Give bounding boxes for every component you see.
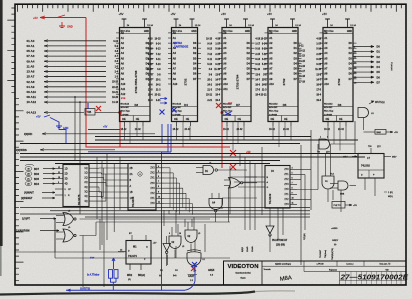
svg-text:Tervezde:: Tervezde: <box>264 268 272 271</box>
svg-text:1Y3: 1Y3 <box>284 204 289 206</box>
svg-text:11: 11 <box>158 202 160 204</box>
svg-text:24-2: 24-2 <box>207 83 212 86</box>
blue annotation +5V/GND switch mid-left <box>44 115 62 128</box>
AND gate TN near bus <box>319 139 330 149</box>
svg-text:2732: 2732 <box>282 78 286 85</box>
svg-text:8-13: 8-13 <box>207 49 212 51</box>
inverter near U9 <box>266 226 274 234</box>
red annotation +5V/GND switch top-left <box>40 15 86 28</box>
svg-text:20-02: 20-02 <box>135 129 142 131</box>
U7 output wires with drops <box>164 167 170 169</box>
svg-text:11-13: 11-13 <box>299 56 305 58</box>
title block number row <box>304 271 406 273</box>
svg-text:GND: GND <box>67 25 73 29</box>
svg-text:D5: D5 <box>377 70 381 74</box>
AND gate WAIT small <box>358 108 369 118</box>
svg-text:(2)Y: (2)Y <box>377 146 381 148</box>
NOR gate G2 <box>63 229 74 242</box>
svg-text:4Q: 4Q <box>84 201 87 203</box>
svg-text:4Q: 4Q <box>84 196 87 198</box>
svg-text:18-20: 18-20 <box>112 97 119 99</box>
NOR gate G1 <box>63 213 74 226</box>
svg-text:1(V)PT: 1(V)PT <box>22 218 30 221</box>
svg-text:5-16: 5-16 <box>316 49 321 51</box>
digit cell separators <box>346 272 402 285</box>
svg-text:11/4/5: 11/4/5 <box>247 246 249 252</box>
svg-text:BD5: BD5 <box>34 178 40 181</box>
PUZ TV box <box>332 202 345 209</box>
svg-text:3: 3 <box>327 137 328 139</box>
svg-text:G: G <box>267 187 269 189</box>
resistor BAD <box>375 130 386 135</box>
svg-text:25-1: 25-1 <box>156 79 161 81</box>
svg-text:20-02: 20-02 <box>338 129 345 131</box>
svg-text:19-21: 19-21 <box>112 92 119 94</box>
left ruler ticks <box>7 8 23 280</box>
red X marks near 74LS139 inputs <box>230 150 236 156</box>
svg-text:+5V: +5V <box>153 243 157 245</box>
svg-text:GND: GND <box>144 31 149 33</box>
svg-text:4-18: 4-18 <box>148 38 153 41</box>
svg-text:5: 5 <box>158 171 159 173</box>
svg-text:OUT(TS): OUT(TS) <box>80 287 90 290</box>
scan bottom edge shadow <box>0 292 255 295</box>
svg-text:11: 11 <box>292 203 294 205</box>
EPROM U3 2732 D7 <box>222 28 251 122</box>
svg-text:20-02: 20-02 <box>283 129 290 131</box>
svg-text:18-02: 18-02 <box>173 129 180 131</box>
svg-text:D1: D1 <box>377 50 381 54</box>
vertical wire right side x301 <box>300 145 302 265</box>
svg-text:9: 9 <box>169 233 170 235</box>
svg-text:1Y3: 1Y3 <box>150 188 155 190</box>
svg-text:Valt: Valt <box>386 268 389 271</box>
svg-text:19-3: 19-3 <box>215 100 220 102</box>
svg-text:9: 9 <box>292 193 293 195</box>
svg-text:A12: A12 <box>121 93 126 96</box>
svg-text:GND: GND <box>191 31 196 33</box>
svg-text:14-16: 14-16 <box>112 101 119 104</box>
svg-text:BD7: BD7 <box>34 168 40 171</box>
svg-text:23-25: 23-25 <box>112 82 119 84</box>
svg-text:2Y1: 2Y1 <box>150 178 155 180</box>
svg-text:18-02: 18-02 <box>223 129 230 131</box>
svg-text:CE: CE <box>186 118 190 121</box>
bus wires lower group <box>20 153 358 155</box>
red wire to IC3 area <box>120 113 222 169</box>
svg-text:TN(slow): TN(slow) <box>325 250 327 258</box>
svg-text:CE: CE <box>284 118 288 121</box>
svg-text:2732-7851-0708: 2732-7851-0708 <box>134 70 138 93</box>
svg-text:I(0)WRS: I(0)WRS <box>16 148 27 152</box>
svg-text:9-11: 9-11 <box>299 46 304 48</box>
svg-text:+5V: +5V <box>267 12 272 16</box>
svg-text:13-15: 13-15 <box>299 61 306 63</box>
long vertical wire from A12 <box>79 101 81 103</box>
svg-text:23-21: 23-21 <box>261 95 268 97</box>
svg-text:7: 7 <box>158 181 159 183</box>
svg-text:BD6: BD6 <box>34 173 40 176</box>
svg-text:2-15: 2-15 <box>255 54 260 56</box>
vertical wire x355 to gate <box>354 121 356 154</box>
NAND gate D1 top center <box>203 166 214 175</box>
red wire from switch down left side <box>86 18 120 148</box>
svg-text:20-02: 20-02 <box>237 129 244 131</box>
svg-text:+A500: +A500 <box>331 227 338 230</box>
data bus output arrows D0-D7 <box>353 46 374 48</box>
svg-text:6: 6 <box>158 176 159 178</box>
svg-text:M1: M1 <box>133 246 137 249</box>
svg-text:19-3: 19-3 <box>148 100 153 102</box>
EPROM U4 2732 D5 <box>268 28 298 122</box>
svg-text:3Q: 3Q <box>84 192 87 194</box>
svg-text:74LS139: 74LS139 <box>268 193 272 204</box>
svg-text:8-13: 8-13 <box>156 49 161 51</box>
svg-text:13-8: 13-8 <box>255 74 260 76</box>
svg-text:11-10: 11-10 <box>254 69 260 71</box>
top ruler ticks <box>18 4 402 12</box>
svg-text:10: 10 <box>158 196 160 198</box>
svg-text:2Y3: 2Y3 <box>150 168 155 170</box>
scan left edge dark bar <box>0 0 3 246</box>
svg-text:1-17: 1-17 <box>316 44 321 46</box>
blue X marks at U2 bottom pins <box>160 110 165 115</box>
svg-text:15-17: 15-17 <box>299 71 306 73</box>
svg-text:SYS: SYS <box>121 98 126 100</box>
U6 to U7 ladder wires <box>89 167 99 169</box>
XOR gate with blue X <box>187 252 201 266</box>
svg-text:13 A6: 13 A6 <box>27 70 35 74</box>
svg-text:TN/5(0)4(TS): TN/5(0)4(TS) <box>332 248 334 260</box>
svg-text:18-02: 18-02 <box>121 129 128 131</box>
svg-text:NC=-Vpp: NC=-Vpp <box>269 111 279 113</box>
svg-text:digitalis szamitogep: digitalis szamitogep <box>275 263 291 266</box>
inverter buffer center <box>163 244 171 252</box>
svg-text:+5V: +5V <box>221 12 226 16</box>
svg-text:(A)WAIT: (A)WAIT <box>24 192 34 195</box>
svg-text:18-02: 18-02 <box>324 129 331 131</box>
vertical drops from EPROM bottoms <box>124 126 126 140</box>
svg-text:17-5: 17-5 <box>316 90 321 92</box>
svg-text:C1,A1,A1: C1,A1,A1 <box>390 62 393 71</box>
svg-text:14-7: 14-7 <box>316 78 321 81</box>
svg-text:M5V: M5V <box>343 157 348 159</box>
svg-text:08 A11: 08 A11 <box>27 95 37 99</box>
U9 left stubs <box>257 176 265 178</box>
svg-text:TYP: TYP <box>90 258 95 260</box>
svg-text:8-13: 8-13 <box>215 59 220 61</box>
svg-text:7-12: 7-12 <box>156 54 161 56</box>
svg-text:14-16: 14-16 <box>299 65 306 68</box>
svg-text:9-12: 9-12 <box>255 64 260 66</box>
svg-text:1Y0: 1Y0 <box>284 189 289 191</box>
gate H11 <box>338 181 348 190</box>
svg-text:5-10: 5-10 <box>156 64 161 66</box>
U6 left pin stubs <box>55 168 63 170</box>
U10 bottom wires <box>364 178 366 190</box>
svg-text:17-19: 17-19 <box>299 81 306 83</box>
svg-text:NC=-Vpp: NC=-Vpp <box>223 111 233 113</box>
svg-text:2Y0: 2Y0 <box>150 183 155 185</box>
svg-text:12-14: 12-14 <box>195 25 201 27</box>
svg-text:10-15: 10-15 <box>206 39 213 41</box>
svg-text:8: 8 <box>158 186 159 188</box>
svg-text:7-12: 7-12 <box>207 54 212 56</box>
svg-text:CE: CE <box>339 118 343 121</box>
svg-text:A10: A10 <box>173 83 178 86</box>
svg-text:21-3: 21-3 <box>262 90 267 92</box>
svg-text:I(0)RD: I(0)RD <box>24 132 32 136</box>
svg-text:NC=-Vpp: NC=-Vpp <box>121 111 131 113</box>
svg-text:+5V: +5V <box>171 12 176 16</box>
NOR gate center right <box>229 178 241 189</box>
flip-flop U8 74LS74 <box>126 241 151 265</box>
svg-text:9: 9 <box>158 191 159 193</box>
svg-text:5-10: 5-10 <box>262 64 267 66</box>
svg-text:VIDEOTON: VIDEOTON <box>228 264 259 270</box>
svg-text:TN FAST: TN FAST <box>319 249 322 258</box>
svg-text:4-18: 4-18 <box>215 38 220 41</box>
svg-text:BAD: BAD <box>377 131 382 134</box>
svg-text:OE: OE <box>225 118 229 121</box>
svg-text:2B: 2B <box>130 167 133 170</box>
U7 right pin stubs <box>156 167 164 169</box>
svg-text:14-7: 14-7 <box>255 78 260 81</box>
U8 left stub <box>118 251 126 253</box>
svg-text:GND: GND <box>347 31 352 33</box>
vertical wire right side x311 <box>310 130 312 210</box>
svg-text:05 A2: 05 A2 <box>27 49 35 53</box>
svg-text:4D: 4D <box>65 183 68 186</box>
svg-text:3Q: 3Q <box>84 187 87 189</box>
svg-text:24-2: 24-2 <box>262 83 267 86</box>
svg-text:1Q: 1Q <box>84 168 87 170</box>
svg-text:2Y3: 2Y3 <box>284 184 289 186</box>
svg-text:GND: GND <box>245 31 250 33</box>
G1 G2 output wires <box>80 218 211 220</box>
U8 top stubs <box>131 235 133 241</box>
svg-text:D4: D4 <box>377 65 381 69</box>
extra wire drops below EPROMs <box>129 122 131 144</box>
svg-text:18-02: 18-02 <box>269 129 276 131</box>
blue X mark XOR output <box>192 262 197 267</box>
blue tick near TRB <box>87 103 89 109</box>
svg-text:13-8: 13-8 <box>148 74 153 76</box>
svg-text:04 A13: 04 A13 <box>27 111 37 115</box>
wire mesh bottom center <box>96 157 98 219</box>
svg-text:23-21: 23-21 <box>206 95 213 97</box>
svg-text:WU71(u): WU71(u) <box>375 101 385 104</box>
svg-text:A11: A11 <box>121 88 126 91</box>
svg-text:TN: TN <box>317 152 320 154</box>
svg-text:5: 5 <box>292 173 293 175</box>
H11 wires <box>330 183 338 185</box>
svg-text:2-21: 2-21 <box>207 100 212 102</box>
svg-text:21-3: 21-3 <box>156 90 161 92</box>
svg-text:04 A9: 04 A9 <box>27 85 35 89</box>
red bus wire <box>86 146 230 148</box>
svg-text:5-16: 5-16 <box>148 49 153 51</box>
svg-text:10: 10 <box>292 198 294 200</box>
blue arrow at U3 bottom <box>225 112 231 115</box>
svg-text:8: 8 <box>292 188 293 190</box>
svg-text:(s): (s) <box>334 244 337 246</box>
svg-text:11-10: 11-10 <box>147 69 153 71</box>
svg-text:+5V: +5V <box>33 16 38 20</box>
svg-text:Szamitastechnikai: Szamitastechnikai <box>235 272 251 275</box>
svg-text:CE: CE <box>238 118 242 121</box>
U9 left input wires <box>230 176 257 178</box>
blue OUT wire bottom <box>66 289 185 291</box>
svg-text:u-PK-60: u-PK-60 <box>317 263 324 265</box>
U6 input labels BD7-BD4 with circled pins <box>25 164 34 165</box>
svg-text:5-16: 5-16 <box>215 49 220 51</box>
svg-text:11/4/A: 11/4/A <box>251 246 254 252</box>
svg-text:2D: 2D <box>65 173 68 176</box>
svg-text:1Q: 1Q <box>84 173 87 175</box>
svg-text:12-14: 12-14 <box>147 25 153 27</box>
svg-text:GND: GND <box>292 31 297 33</box>
svg-text:1: 1 <box>320 137 321 139</box>
svg-text:9-14: 9-14 <box>207 43 212 46</box>
svg-text:+5V: +5V <box>119 12 124 16</box>
EPROM U1 2732 D3 <box>120 28 151 122</box>
svg-text:D0: D0 <box>377 45 381 49</box>
long vertical wire from A11 <box>74 96 76 98</box>
svg-text:11: 11 <box>58 172 60 174</box>
svg-text:OE: OE <box>326 118 330 121</box>
svg-text:(2)RESET: (2)RESET <box>21 197 33 200</box>
svg-text:12-14: 12-14 <box>248 25 254 27</box>
svg-text:17-5: 17-5 <box>215 90 220 92</box>
svg-text:CE: CE <box>136 118 140 121</box>
svg-text:Dea.sam. 72: Dea.sam. 72 <box>380 263 391 265</box>
svg-text:2Q: 2Q <box>84 182 87 184</box>
svg-text:74LS156: 74LS156 <box>131 196 135 207</box>
svg-text:8-13: 8-13 <box>262 49 267 51</box>
svg-text:1 (D): 1 (D) <box>388 192 393 194</box>
svg-text:5-10: 5-10 <box>207 64 212 66</box>
long vertical wire x262 <box>261 147 263 215</box>
svg-text:10: 10 <box>179 233 181 235</box>
svg-text:1Y2: 1Y2 <box>150 193 155 195</box>
svg-text:+5V: +5V <box>353 205 357 207</box>
svg-text:A10: A10 <box>223 83 228 86</box>
svg-text:+5V: +5V <box>322 12 327 16</box>
title block outer <box>224 261 407 285</box>
svg-text:+5V: +5V <box>103 126 108 129</box>
svg-text:9-14: 9-14 <box>156 43 161 46</box>
svg-text:4: 4 <box>292 168 293 170</box>
svg-text:EXT: EXT <box>228 103 233 105</box>
svg-text:+5V: +5V <box>36 116 41 119</box>
svg-text:PUZ TV: PUZ TV <box>334 205 342 207</box>
decoder U7 74LS156 <box>128 164 156 211</box>
svg-text:9-12: 9-12 <box>316 64 321 66</box>
svg-text:1B: 1B <box>130 191 133 194</box>
red junction blob <box>118 111 121 114</box>
red X below XOR <box>191 266 196 271</box>
wires upper bottom-left <box>20 207 310 209</box>
bus wires below EPROMs <box>95 136 311 138</box>
svg-text:8-13: 8-13 <box>255 59 260 61</box>
EPROM U2 extra cartridge D4 <box>172 28 198 122</box>
svg-text:3D: 3D <box>65 178 68 181</box>
svg-text:CART: CART <box>188 275 195 278</box>
gate F6 below <box>322 176 334 189</box>
EPROM U5 2732 D6 <box>323 28 353 122</box>
svg-text:2732: 2732 <box>184 78 188 85</box>
svg-text:2Y0: 2Y0 <box>284 169 289 171</box>
svg-text:D6: D6 <box>377 75 381 79</box>
svg-text:1-17: 1-17 <box>255 44 260 46</box>
svg-text:6-11: 6-11 <box>262 59 267 61</box>
svg-text:NC=A12: NC=A12 <box>324 103 333 106</box>
svg-text:Rajzszam: Rajzszam <box>329 269 337 271</box>
svg-text:5-16: 5-16 <box>255 49 260 51</box>
U9 right stubs <box>290 169 297 171</box>
svg-text:C(1)(A): C(1)(A) <box>303 233 306 240</box>
svg-text:27—5109170002E: 27—5109170002E <box>339 273 409 282</box>
svg-text:1Y1: 1Y1 <box>150 198 155 200</box>
svg-text:25-1: 25-1 <box>207 79 212 81</box>
svg-text:1D: 1D <box>65 168 68 171</box>
svg-text:NC=-Vpp: NC=-Vpp <box>173 111 183 113</box>
svg-text:2732-2764: 2732-2764 <box>236 74 240 89</box>
svg-text:D2: D2 <box>377 55 381 59</box>
svg-text:11 A5: 11 A5 <box>27 64 35 68</box>
svg-text:1Y0: 1Y0 <box>150 203 155 205</box>
blue resistor pair <box>109 270 113 279</box>
blue wires below U2 <box>66 124 171 290</box>
svg-text:(0): (0) <box>128 279 131 281</box>
svg-text:CARTRIDGE: CARTRIDGE <box>174 46 189 49</box>
svg-text:7-12: 7-12 <box>262 54 267 56</box>
svg-text:21-3: 21-3 <box>207 90 212 92</box>
svg-text:10 A12: 10 A12 <box>27 100 37 104</box>
svg-text:A10: A10 <box>324 83 329 86</box>
svg-text:14-7: 14-7 <box>215 78 220 81</box>
svg-text:D3: D3 <box>377 60 381 64</box>
svg-text:8-13: 8-13 <box>316 59 321 61</box>
black wire test point <box>113 164 115 233</box>
svg-text:BD(st): BD(st) <box>138 274 145 277</box>
svg-text:17-5: 17-5 <box>255 90 260 92</box>
svg-text:12: 12 <box>58 167 60 169</box>
svg-text:A10: A10 <box>121 83 126 86</box>
svg-text:A10: A10 <box>269 83 274 86</box>
svg-text:9-14: 9-14 <box>262 43 267 46</box>
svg-text:2A: 2A <box>130 173 133 176</box>
svg-text:Q: Q <box>146 247 148 249</box>
svg-text:4: 4 <box>158 166 159 168</box>
svg-text:(s): (s) <box>159 275 162 277</box>
svg-text:7: 7 <box>292 183 293 185</box>
svg-text:8-13: 8-13 <box>148 59 153 61</box>
svg-text:07 A3: 07 A3 <box>27 54 35 58</box>
register U6 74LS175 <box>63 165 89 207</box>
TRB box <box>85 109 95 116</box>
svg-text:9: 9 <box>58 182 59 184</box>
svg-text:14-7: 14-7 <box>148 78 153 81</box>
gate IC U10 74LS02 <box>358 154 384 179</box>
svg-text:2732: 2732 <box>337 78 341 85</box>
svg-text:74LS175: 74LS175 <box>77 194 81 205</box>
svg-text:6-11: 6-11 <box>208 59 213 61</box>
blue wire from switch to bus <box>59 122 120 144</box>
svg-text:01 A0: 01 A0 <box>27 39 35 43</box>
blue curve up to cart area <box>185 263 195 290</box>
